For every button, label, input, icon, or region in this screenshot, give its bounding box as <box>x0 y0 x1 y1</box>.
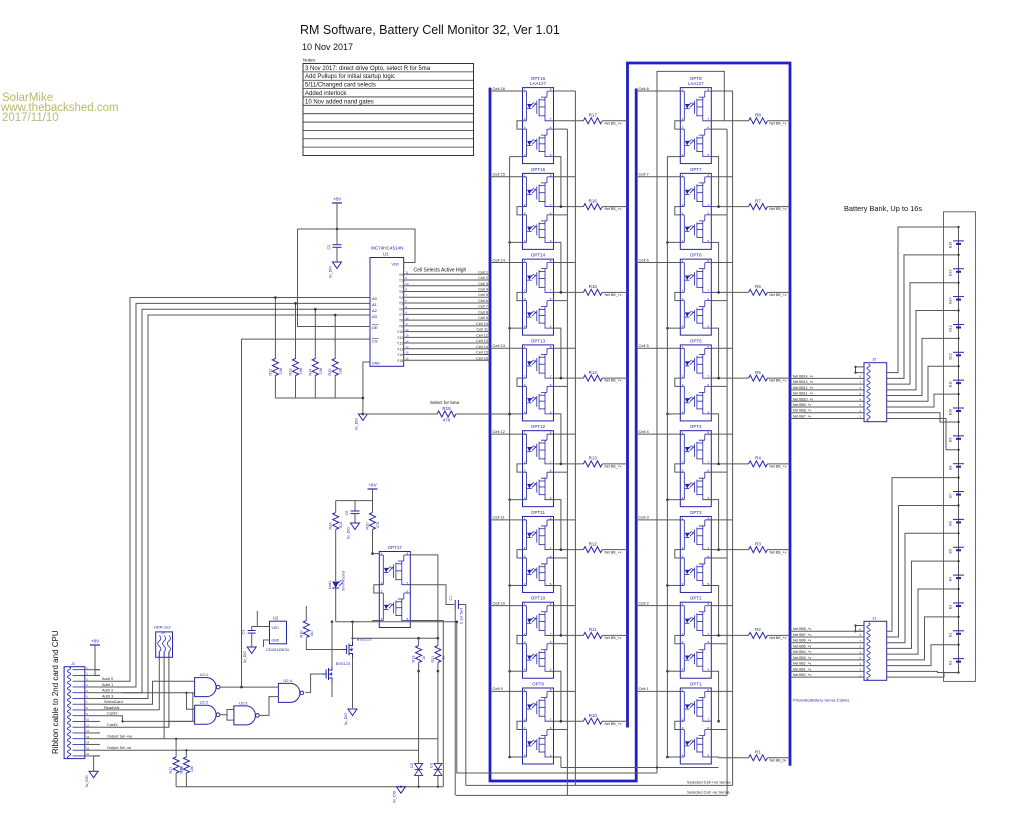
wire cell 14 select from bus to OPT14 pin1 <box>490 257 523 262</box>
svg-text:R15: R15 <box>589 284 598 289</box>
resistor R15 <box>554 284 628 297</box>
wire OPT17 pin7 to sense cap <box>410 585 454 605</box>
wire output sel +ve rail <box>100 738 438 740</box>
svg-text:10 Nov added nand gates: 10 Nov added nand gates <box>305 99 374 105</box>
wire OPT7 pin6 to rail <box>711 214 727 216</box>
junction CS line <box>240 686 243 689</box>
wire ribbon pin 10 stub <box>85 720 100 722</box>
svg-text:Net BB_+v: Net BB_+v <box>770 207 787 211</box>
resistor R5 <box>711 370 790 383</box>
svg-text:Cell 15: Cell 15 <box>493 172 506 177</box>
svg-text:Net BB4_+v: Net BB4_+v <box>793 650 811 654</box>
svg-text:Cell 14: Cell 14 <box>476 345 488 349</box>
svg-text:Added interlock: Added interlock <box>305 91 347 97</box>
svg-text:R17: R17 <box>589 113 598 118</box>
wire ribbon pin 4 stub <box>85 686 100 688</box>
svg-text:Y5: Y5 <box>399 302 403 306</box>
svg-text:9mm Round: 9mm Round <box>342 571 346 591</box>
svg-text:Addr 3: Addr 3 <box>102 694 113 698</box>
svg-text:Y14: Y14 <box>397 353 403 357</box>
svg-text:Net BB_+v: Net BB_+v <box>770 379 787 383</box>
wire J2 pin 6 to battery node <box>887 338 959 395</box>
svg-text:OPT10: OPT10 <box>531 596 546 601</box>
svg-text:Addr 2: Addr 2 <box>102 689 113 693</box>
selected cell +ve sense rail <box>466 779 733 785</box>
svg-text:510: 510 <box>339 522 343 528</box>
svg-text:Net BB_+v: Net BB_+v <box>605 550 622 554</box>
wire J1 pin 9 to battery node <box>887 671 959 672</box>
capacitor C6 <box>345 501 360 523</box>
svg-text:ReadVolt: ReadVolt <box>104 706 120 710</box>
wire J2 pin 8 from sense bus <box>790 403 864 407</box>
wire cell 5 select from bus to OPT5 pin1 <box>636 343 680 348</box>
svg-text:R18: R18 <box>442 406 451 411</box>
svg-text:Y1: Y1 <box>399 279 403 283</box>
svg-text:OPT9: OPT9 <box>532 681 544 686</box>
resistor R21 1k <box>431 637 446 764</box>
svg-text:OPT5: OPT5 <box>690 338 702 343</box>
svg-text:Net BB8_+v: Net BB8_+v <box>793 627 811 631</box>
resistor R6 <box>711 284 790 297</box>
svg-text:Net BB7_+v: Net BB7_+v <box>793 633 811 637</box>
wire OPT10 pin5 chain <box>554 671 561 721</box>
wire OPT2 pin5 chain <box>711 671 718 721</box>
svg-text:Notes:: Notes: <box>303 58 316 63</box>
svg-text:OPT7: OPT7 <box>690 167 702 172</box>
svg-text:Net BB_+v: Net BB_+v <box>770 636 787 640</box>
wire U1 Y15 cell 16 select to bus <box>404 356 490 360</box>
battery B15 <box>949 269 965 276</box>
resistor R19 1k <box>412 637 427 764</box>
wire J1 pin 10 to battery bottom node <box>887 673 959 677</box>
opto-isolator OPT11 <box>517 510 554 593</box>
svg-text:R11: R11 <box>589 627 597 632</box>
svg-text:Net BB5_+v: Net BB5_+v <box>793 644 811 648</box>
wire J1 pin 9 from sense bus <box>790 667 864 671</box>
gate U2:1 NAND <box>195 672 220 697</box>
power +8V for U1 <box>332 197 342 230</box>
wire OPT4 pin6 to rail <box>711 471 727 473</box>
wire U1 Y4 cell 5 select to bus <box>404 293 490 297</box>
svg-text:Net BB_+v: Net BB_+v <box>605 121 622 125</box>
resistor R26 <box>329 501 344 581</box>
IC U2 CD4011BCN <box>266 616 289 652</box>
wire OPT11 pin5 chain <box>554 585 561 635</box>
svg-text:Y9: Y9 <box>399 324 403 328</box>
title text <box>300 23 560 52</box>
svg-text:Cell 7: Cell 7 <box>478 305 488 309</box>
resistor R12 <box>554 541 628 554</box>
svg-text:Net BB_+v: Net BB_+v <box>605 379 622 383</box>
wire J2 pin 7 from sense bus <box>790 397 864 401</box>
left column pin4 chain vertical (LED return) <box>509 157 511 757</box>
wire OPT11 pin4 stub <box>510 584 523 586</box>
svg-text:Cell 6: Cell 6 <box>478 299 488 303</box>
svg-text:U1: U1 <box>383 252 389 257</box>
wire cell 7 select from bus to OPT7 pin1 <box>636 172 680 177</box>
svg-text:R12: R12 <box>589 541 598 546</box>
wire OPT3 pin4 stub <box>667 584 680 586</box>
gate U2:3 NAND <box>234 700 259 725</box>
svg-text:Net BB6_+v: Net BB6_+v <box>793 639 811 643</box>
wire OPT14 pin4 stub <box>510 327 523 329</box>
junction <box>717 720 720 723</box>
wire OPT6 pin8 to rail <box>711 262 732 264</box>
opto-isolator OPT3 <box>675 510 712 593</box>
svg-text:Net BB11_+v: Net BB11_+v <box>793 392 813 396</box>
transistor Q1 BSS123 <box>343 622 373 708</box>
battery B2 <box>949 631 965 637</box>
svg-text:Cell 8: Cell 8 <box>478 310 488 314</box>
wire OPT1 pin8 to rail <box>711 690 732 692</box>
wire +8V rail to U1 VDD <box>298 229 416 263</box>
wire cell 15 select from bus to OPT15 pin1 <box>490 172 523 177</box>
wire OPT6 pin6 to rail <box>711 300 727 302</box>
battery chain wire <box>958 227 960 673</box>
wire OPT15 pin6 to rail <box>554 214 568 216</box>
wire J1 pin 3 to battery node <box>887 505 959 637</box>
svg-text:R30: R30 <box>299 631 303 638</box>
wire U1 Y0 cell 1 select to bus <box>404 270 490 274</box>
wire OPT10 pin4 stub <box>510 670 523 672</box>
svg-text:Selected Cell -ve Sense: Selected Cell -ve Sense <box>687 789 730 794</box>
svg-text:R22: R22 <box>268 369 272 376</box>
svg-text:R25: R25 <box>328 369 332 376</box>
svg-text:R16: R16 <box>589 198 598 203</box>
wire U2:1 output to U2:4 input <box>220 686 278 688</box>
svg-text:Add Pullups for initial startu: Add Pullups for initial startup logic <box>305 74 395 80</box>
opto-isolator OPT16 (LAA127) <box>517 76 554 164</box>
wire D2 to ground rail <box>418 775 420 786</box>
svg-text:Cell 10: Cell 10 <box>476 322 488 326</box>
wire cell 9 select from bus to OPT9 pin1 <box>490 686 523 691</box>
wire J2 pin 6 from sense bus <box>790 392 864 396</box>
svg-text:Net BB_+v: Net BB_+v <box>605 636 622 640</box>
svg-text:Cell 14: Cell 14 <box>493 257 506 262</box>
svg-text:Cell 8: Cell 8 <box>639 86 650 91</box>
svg-text:U2:2: U2:2 <box>200 700 209 705</box>
wire OPT4 pin4 stub <box>667 499 680 501</box>
wire J2 pin 3 to battery node <box>887 255 959 379</box>
wire ribbon pin 2 stub <box>85 674 100 676</box>
opto-isolator OPT9 <box>517 681 554 764</box>
junction <box>314 308 317 311</box>
wire cell 1 select from bus to OPT1 pin1 <box>636 686 680 691</box>
wire OPT2 pin8 to rail <box>711 605 732 607</box>
wire address A1 from ribbon to U1 <box>100 303 370 687</box>
svg-text:Cell 7: Cell 7 <box>639 172 650 177</box>
selected cell -ve sense rail <box>456 789 731 795</box>
svg-text:OPT14: OPT14 <box>531 253 546 258</box>
wire OPT12 pin4 stub <box>510 499 523 501</box>
wire J1 pin 10 from sense bus <box>790 673 864 677</box>
wire J2 pin 5 from sense bus <box>790 386 864 390</box>
wire OPT1 pin5 chain <box>711 756 718 759</box>
svg-text:0v_DIG: 0v_DIG <box>243 651 247 663</box>
battery B14 <box>949 297 965 304</box>
battery B11 <box>949 380 965 387</box>
wire OPT14 pin5 chain <box>554 328 561 378</box>
wire +8V rail <box>336 500 373 502</box>
wire J1 pin 7 from sense bus <box>790 656 864 660</box>
wire OPT6 pin5 chain <box>711 328 718 378</box>
svg-text:R4: R4 <box>755 456 761 461</box>
svg-text:Net BB10_+v: Net BB10_+v <box>793 397 813 401</box>
svg-text:Y12: Y12 <box>397 342 403 346</box>
wire OPT14 pin6 to rail <box>554 300 568 302</box>
wire OPT17 pin4 stub <box>373 620 380 622</box>
svg-text:D2: D2 <box>410 763 414 768</box>
power +8V for interlock <box>368 483 378 505</box>
resistor R17 <box>554 113 628 126</box>
junction <box>717 377 720 380</box>
junction <box>717 634 720 637</box>
svg-text:GND: GND <box>372 362 380 366</box>
svg-text:Output Sel +ve: Output Sel +ve <box>107 735 132 739</box>
svg-text:Select for 5ma: Select for 5ma <box>430 400 460 405</box>
opto-isolator OPT5 <box>675 338 712 421</box>
wire U1 Y1 cell 2 select to bus <box>404 276 490 280</box>
opto-isolator OPT8 (LAA127) <box>675 76 712 164</box>
diode D3 TVS <box>429 763 442 775</box>
svg-text:Y13: Y13 <box>397 347 403 351</box>
svg-text:R5: R5 <box>755 370 761 375</box>
wire OPT15 pin4 stub <box>510 241 523 243</box>
svg-text:U2:3: U2:3 <box>239 700 248 705</box>
svg-text:RM Software, Battery Cell Moni: RM Software, Battery Cell Monitor 32, Ve… <box>300 23 560 37</box>
svg-text:OPT13: OPT13 <box>531 338 546 343</box>
svg-text:R21: R21 <box>431 656 435 663</box>
LED Led1 9mm Round <box>328 571 346 622</box>
opto-isolator OPT17 <box>374 545 411 628</box>
wire OPT16 pin5 chain <box>554 157 561 207</box>
svg-text:Cell 15: Cell 15 <box>476 351 488 355</box>
wire J2 pin 2 to battery node <box>887 227 959 373</box>
battery B8 <box>949 464 965 470</box>
wire U1 Y13 cell 14 select to bus <box>404 345 490 349</box>
svg-text:470: 470 <box>376 522 380 528</box>
svg-text:Cell 9: Cell 9 <box>478 316 488 320</box>
wire HDR pin2 down <box>163 657 165 739</box>
svg-text:C1: C1 <box>449 596 453 601</box>
wire U1 Y11 cell 12 select to bus <box>404 333 490 337</box>
svg-text:10K: 10K <box>279 367 283 374</box>
svg-text:+8V: +8V <box>91 639 100 644</box>
svg-text:Cell 16: Cell 16 <box>493 86 506 91</box>
svg-text:Net BB_+v: Net BB_+v <box>770 464 787 468</box>
wire OPT13 pin4 stub <box>510 413 523 415</box>
wire OPT5 pin4 stub <box>667 413 680 415</box>
svg-text:A1: A1 <box>372 302 378 307</box>
wire cell 13 select from bus to OPT13 pin1 <box>490 343 523 348</box>
wire address A0 from ribbon to U1 <box>100 298 370 682</box>
resistor R24 pulldown 10K <box>308 309 323 398</box>
svg-text:U2:1: U2:1 <box>200 672 209 677</box>
opto-isolator OPT13 <box>517 338 554 421</box>
wire J1 pin 6 to battery node <box>887 589 959 654</box>
svg-text:Y6: Y6 <box>399 307 403 311</box>
svg-text:2017/11/10: 2017/11/10 <box>2 112 59 124</box>
svg-text:R3: R3 <box>755 541 761 546</box>
svg-text:Net BB13_+v: Net BB13_+v <box>793 380 813 384</box>
wire cell 8 select from bus to OPT8 pin1 <box>636 86 680 91</box>
resistor R10 <box>554 713 628 726</box>
wire U1 DE to +8V rail <box>298 229 371 327</box>
svg-text:B13: B13 <box>949 325 953 331</box>
wire J1 pin 3 from sense bus <box>790 633 864 637</box>
connector J1 battery sense <box>864 615 887 680</box>
wire ReadVolt row <box>100 709 159 711</box>
wire J1 pin 4 from sense bus <box>790 639 864 643</box>
junction <box>362 413 365 416</box>
wire cell 6 select from bus to OPT6 pin1 <box>636 257 680 262</box>
junction <box>717 463 720 466</box>
junction <box>334 314 337 317</box>
wire output sel -ve rail <box>100 749 419 751</box>
battery B9 <box>949 436 965 442</box>
wire interlock return line <box>457 622 657 773</box>
resistor R1 (OPT1 lower switch) <box>719 750 790 763</box>
svg-text:OPT15: OPT15 <box>531 167 546 172</box>
svg-text:B8: B8 <box>949 465 953 469</box>
svg-text:3 Nov 2017: direct drive Opto,: 3 Nov 2017: direct drive Opto, select R … <box>305 66 431 72</box>
svg-text:R27: R27 <box>169 767 173 774</box>
svg-text:B16: B16 <box>949 242 953 248</box>
wire OPT8 pin8 to rail <box>711 90 732 92</box>
svg-text:OPT6: OPT6 <box>690 253 702 258</box>
svg-text:U2:4: U2:4 <box>283 678 292 683</box>
battery B6 <box>949 519 965 525</box>
wire OPT7 pin4 stub <box>667 241 680 243</box>
junction <box>294 302 297 305</box>
junction R18 to LED return chain <box>508 413 511 416</box>
svg-text:B1: B1 <box>949 660 953 664</box>
svg-text:B12: B12 <box>949 353 953 359</box>
battery B1 <box>949 659 965 665</box>
svg-text:10K: 10K <box>319 367 323 374</box>
svg-text:BSS123: BSS123 <box>357 637 372 642</box>
wire OPT4 pin5 chain <box>711 500 718 550</box>
capacitor C1 0.1uf Tant <box>449 596 466 624</box>
wire OPT9 pin5 chain <box>554 757 561 768</box>
wire U1 Y14 cell 15 select to bus <box>404 351 490 355</box>
svg-text:Cell 12: Cell 12 <box>493 429 506 434</box>
svg-text:A3: A3 <box>372 314 378 319</box>
battery bank enclosure <box>944 212 976 682</box>
wire J2 pins 1-2 tie <box>856 367 865 373</box>
svg-text:D3: D3 <box>429 763 433 768</box>
svg-text:R1: R1 <box>755 750 761 755</box>
wire J1 pins 1-2 tie <box>856 626 865 632</box>
right column return wire over top to interlock <box>657 71 724 773</box>
resistor R23 pulldown 10K <box>289 303 304 398</box>
svg-text:Net BB8_+v: Net BB8_+v <box>793 409 811 413</box>
svg-text:B10: B10 <box>949 409 953 415</box>
svg-text:C2: C2 <box>327 245 331 250</box>
wire OPT8 pin5 chain <box>711 157 718 207</box>
wire J1 pin 2 to battery node <box>887 478 959 632</box>
junction <box>274 296 277 299</box>
svg-text:Y3: Y3 <box>399 290 403 294</box>
resistor R18 select for 5ma <box>363 400 510 423</box>
svg-text:C6: C6 <box>345 511 349 516</box>
wire ribbon pin 7 stub <box>85 703 100 705</box>
wire ribbon pin 14 stub <box>85 743 100 745</box>
wire OPT5 pin8 to rail <box>711 347 732 349</box>
wire cell 11 select from bus to OPT11 pin1 <box>490 515 523 520</box>
opto-isolator OPT7 <box>675 167 712 250</box>
resistor R2 <box>711 627 790 640</box>
svg-text:B3: B3 <box>949 605 953 609</box>
right column pin6 rail to -ve sense <box>726 129 728 795</box>
svg-text:HDR-1x3: HDR-1x3 <box>154 625 171 630</box>
svg-text:B5: B5 <box>949 549 953 553</box>
svg-text:A2: A2 <box>372 308 378 313</box>
svg-text:OPT17: OPT17 <box>388 545 403 550</box>
svg-text:Cell 11: Cell 11 <box>476 328 488 332</box>
resistor R11 <box>554 627 628 640</box>
wire HDR pin3 to CardX row <box>168 657 170 727</box>
wire OPT17 pin8 down <box>410 555 438 638</box>
resistor R22 pulldown 10K <box>268 298 283 399</box>
wire OPT4 pin8 to rail <box>711 433 732 435</box>
svg-text:BSS123: BSS123 <box>336 661 351 666</box>
wire J2 pin 7 to battery node <box>887 366 959 401</box>
wire OPT15 pin5 chain <box>554 242 561 292</box>
svg-text:+8V: +8V <box>333 197 342 202</box>
wire OPT14 pin8 to rail <box>554 262 576 264</box>
svg-text:Y11: Y11 <box>397 336 403 340</box>
wire U1 Y3 cell 4 select to bus <box>404 287 490 291</box>
wire OPT5 pin5 chain <box>711 414 718 464</box>
junction R20 to OPT17 pin1 <box>371 552 374 555</box>
svg-text:Y7: Y7 <box>399 313 403 317</box>
wire OPT16 pin4 stub <box>510 156 523 158</box>
svg-text:10K: 10K <box>339 367 343 374</box>
svg-text:Net BB_0v: Net BB_0v <box>770 758 787 762</box>
wire OPT10 pin6 to rail <box>554 643 568 645</box>
wire pulldown common rail <box>275 397 363 399</box>
junction <box>717 291 720 294</box>
svg-text:Cell 3: Cell 3 <box>639 515 650 520</box>
opto-isolator OPT10 <box>517 596 554 679</box>
wire cell 2 select from bus to OPT2 pin1 <box>636 600 680 605</box>
svg-text:B6: B6 <box>949 521 953 525</box>
wire OPT12 pin5 chain <box>554 500 561 550</box>
wire OPT5 pin6 to rail <box>711 385 727 387</box>
wire OPT11 pin8 to rail <box>554 519 576 521</box>
svg-text:Net BB7_+v: Net BB7_+v <box>793 414 811 418</box>
junction <box>717 205 720 208</box>
wire interlock bottom rail <box>336 621 457 623</box>
wire OPT9 pin8 to rail <box>554 690 576 692</box>
wire J1 pin 7 to battery node <box>887 617 959 660</box>
junction <box>560 205 563 208</box>
svg-text:Addr 0: Addr 0 <box>102 677 113 681</box>
IC U1 MC74HC4514N 4-to-16 decoder <box>370 246 404 367</box>
battery B3 <box>949 603 965 609</box>
resistor R27 10k <box>169 738 184 787</box>
svg-text:B7: B7 <box>949 493 953 497</box>
wire address A2 from ribbon to U1 <box>100 309 370 693</box>
wire ribbon pin 11 stub <box>85 726 100 728</box>
wire OPT8 pin6 to rail <box>711 128 727 130</box>
wire OPT16 pin6 to rail <box>554 128 568 130</box>
svg-text:1k: 1k <box>441 656 445 660</box>
svg-text:Net BB9_+v: Net BB9_+v <box>793 403 811 407</box>
svg-text:10K: 10K <box>299 367 303 374</box>
svg-text:B14: B14 <box>949 297 953 303</box>
